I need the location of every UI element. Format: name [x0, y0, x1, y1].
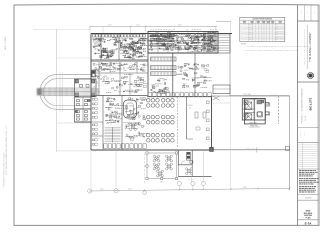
svg-text:LIGHTING FIXTURE SCHEDULE: LIGHTING FIXTURE SCHEDULE [252, 19, 272, 21]
serving south scatter [164, 83, 165, 85]
detached equipment marks [244, 101, 248, 105]
svg-text:REV: REV [314, 11, 316, 14]
revision table rows [298, 144, 320, 146]
detached building inner walls [242, 108, 254, 110]
lower-left rooms walls [102, 96, 104, 151]
kitchen equipment dense texture [178, 42, 180, 43]
serving misc line [195, 77, 212, 79]
walkway hatch into building [92, 87, 100, 89]
svg-text:EX. PVMT: EX. PVMT [271, 94, 277, 96]
dashed utility line [278, 96, 280, 124]
dim tick [130, 26, 132, 28]
restroom dark marks [88, 100, 91, 102]
dim tick [89, 190, 91, 192]
serving counters hatched [151, 57, 177, 61]
dark utility cluster [92, 70, 96, 77]
column grid line A (left) [56, 29, 58, 152]
kitchen block bottom wall [148, 52, 218, 54]
svg-text:58'-4": 58'-4" [178, 24, 182, 26]
restroom fixture [77, 118, 80, 120]
svg-text:12'-0": 12'-0" [136, 24, 140, 26]
drive-thru inner kerb [43, 79, 91, 106]
bottom extension lines [90, 150, 92, 189]
building top wall [91, 33, 232, 35]
bump-out door arc [181, 161, 185, 165]
restroom fixture [77, 111, 80, 113]
south bump-out outline [178, 150, 192, 165]
restroom fixture [77, 115, 80, 117]
svg-text:10-14-03: 10-14-03 [305, 116, 307, 121]
wall junction dark blob [210, 147, 214, 151]
toilet fixtures west wall [92, 99, 94, 101]
dim tick [257, 188, 259, 190]
sidewalk edge line 2 [61, 72, 63, 112]
grid bubble B [114, 189, 118, 193]
stair treads [105, 127, 121, 129]
grid bubble A [88, 189, 92, 193]
site marker box [285, 146, 289, 150]
wait station flower [131, 125, 134, 128]
kitchen equipment hatched counter rows [150, 34, 174, 37]
top dim extension lines [130, 27, 132, 34]
water heater rect [190, 161, 193, 163]
patio table [167, 165, 170, 168]
svg-text:PROJ NO 03-117: PROJ NO 03-117 [301, 113, 303, 123]
vestibule inner hatch [75, 88, 77, 95]
grid bubble D [177, 181, 181, 185]
top-right dim extension [230, 21, 232, 33]
mid rooms texture lower band [137, 85, 140, 86]
dim tick [145, 26, 147, 28]
project name BIG LOTS vertical [309, 97, 313, 110]
stair rail [112, 128, 114, 143]
northeast room [213, 85, 230, 94]
faint site line upper-left [33, 29, 91, 31]
building left wall [90, 34, 92, 151]
lower-left scatter [109, 103, 110, 105]
dim tick [115, 190, 117, 192]
schedule row lines [240, 25, 285, 27]
grid bubble F [201, 181, 205, 185]
dim tick [203, 189, 205, 191]
svg-text:10/14/03: 10/14/03 [305, 198, 312, 200]
svg-text:28'-4": 28'-4" [128, 189, 132, 191]
building step wall at y96 [212, 95, 231, 97]
date cell divider [298, 199, 320, 201]
equipment tag row above wall [150, 29, 152, 31]
dim tick [179, 189, 181, 191]
notes block divider [298, 194, 320, 196]
cooler shelving right strip [218, 34, 230, 54]
revision table divider [298, 142, 320, 144]
booth row along south wall [104, 144, 107, 149]
svg-text:PROPERTY LINE: PROPERTY LINE [245, 148, 255, 150]
svg-text:BIG LOTS: BIG LOTS [309, 97, 313, 110]
grid bubble C (below line) [143, 191, 147, 195]
dim tick [89, 26, 91, 28]
dining east wall tables [207, 101, 210, 104]
serving area equipment cluster [185, 73, 187, 75]
patio table east [187, 170, 190, 173]
restroom fixture [85, 111, 88, 113]
drawn/checked cell [300, 132, 302, 136]
dim tick [230, 188, 232, 190]
sidewalk edge line 1 [59, 72, 61, 112]
covered walkway hatched bar [42, 88, 75, 96]
svg-text:1891 GEMSTONE RD. COLUMBUS OH: 1891 GEMSTONE RD. COLUMBUS OH [301, 88, 303, 111]
schedule header row [240, 23, 285, 25]
mid rooms texture upper band [93, 63, 95, 65]
general notes dense text block [299, 170, 301, 172]
corridor dashed centerline [110, 97, 112, 127]
vestibule center mark [80, 85, 83, 88]
restroom fixture [77, 104, 80, 106]
vestibule column 2 [92, 80, 95, 83]
site east line [289, 96, 291, 191]
svg-text:26'-0": 26'-0" [100, 189, 104, 191]
firm block: THE RUSSELL COMPANY vertical text [309, 32, 312, 62]
schedule header text dashes [243, 20, 247, 22]
mid rooms walls [91, 59, 148, 61]
dim tick [192, 189, 194, 191]
detached equipment X-box lower [245, 114, 252, 120]
top dimension line [90, 26, 216, 28]
serving area west wall [172, 53, 174, 97]
building right wall lower [211, 96, 213, 150]
detached bldg door stub [265, 103, 270, 106]
dim extension bottom-left [57, 150, 91, 152]
project address vertical [301, 88, 303, 111]
faint line left wing bottom [57, 122, 91, 124]
svg-text:42'-8": 42'-8" [108, 24, 112, 26]
left wing outline [75, 97, 92, 122]
bar surroundings scatter [134, 108, 135, 111]
svg-text:PLAN: PLAN [306, 216, 312, 219]
detached building inner walls [244, 112, 254, 114]
plot stamp text, left margin upper [5, 36, 7, 50]
top cell vertical divider 1 [304, 5, 306, 22]
door swing arcs kitchen [107, 51, 114, 58]
plot stamp text, left margin lower [3, 153, 6, 188]
patio table [155, 157, 158, 160]
dim tick [144, 189, 146, 191]
svg-text:28'-6": 28'-6" [160, 181, 164, 183]
svg-text:86'-6": 86'-6" [243, 187, 247, 189]
svg-text:DR. BY: DR. BY [300, 132, 302, 136]
sheet number divider [298, 219, 320, 221]
dining partition wall [186, 97, 188, 139]
kitchen block internal rows [148, 35, 218, 37]
bar counter pill [124, 100, 137, 118]
site wall line y150 [212, 149, 290, 151]
gate X symbol on site line [213, 96, 220, 100]
vestibule inner walkway lines [75, 87, 97, 89]
vestibule column 1 [75, 80, 78, 83]
electrical panel stack [187, 152, 191, 154]
revision table column line [301, 143, 303, 169]
drive-thru outer kerb (stadium) [40, 74, 91, 109]
detached equipment X-box upper [245, 102, 252, 110]
left wing bottom wall [75, 121, 92, 123]
schedule column lines [248, 20, 250, 41]
firm logo [308, 73, 314, 79]
kitchen equipment block walls [148, 32, 218, 54]
detached bldg door stub upper [265, 102, 268, 105]
restroom fixture [85, 115, 88, 117]
svg-text:THE RUSSELL COMPANY: THE RUSSELL COMPANY [309, 32, 312, 62]
dim tick [289, 188, 291, 190]
patio outline [147, 153, 177, 179]
bottom dimension line [90, 188, 290, 191]
building right wall upper [229, 34, 231, 97]
patio table [167, 157, 170, 160]
dashed utility line [278, 96, 280, 124]
svg-text:NOTES:: NOTES: [241, 43, 246, 45]
svg-text:ELEC-10.DWG: ELEC-10.DWG [5, 36, 7, 50]
lighting fixture schedule table box [240, 17, 285, 41]
soffit line NE [213, 102, 230, 104]
site wall line y96 [230, 95, 290, 97]
revision block divider [298, 168, 320, 170]
dining booth row top [148, 93, 152, 97]
vestibule column 3 [75, 93, 78, 96]
kitchen west rooms walls [91, 59, 148, 61]
svg-text:P:\2003\BIGLOTS\ELEC E7A LTG 1: P:\2003\BIGLOTS\ELEC E7A LTG 10/14/03 [3, 153, 6, 188]
dim tick [215, 26, 217, 28]
project block divider [298, 127, 320, 129]
cooler vertical hatch right [203, 32, 205, 52]
dining wall under booths [147, 96, 212, 98]
walkway centerline [42, 91, 92, 93]
title block left edge [297, 5, 299, 226]
detached bldg door stub lower [265, 112, 268, 115]
svg-text:PLOT: 10/14/03 10:22 AM USER:: PLOT: 10/14/03 10:22 AM USER: JDOE SCALE… [5, 124, 8, 174]
dark cluster nw [102, 50, 107, 56]
title block top cells divider [298, 20, 320, 22]
serving area east wall [194, 53, 196, 97]
restroom fixture [85, 100, 88, 102]
faint line mid-left [57, 57, 91, 59]
left wing divider [75, 108, 92, 110]
patio table [158, 172, 161, 175]
dining misc marks [195, 112, 198, 118]
vestibule column 4 [92, 93, 95, 96]
detached dark panel [260, 100, 264, 103]
restroom fixture [85, 118, 88, 120]
svg-text:DINING: DINING [188, 105, 193, 107]
entry ramp hatch [93, 38, 96, 47]
building bottom wall [91, 149, 212, 151]
detached building outline [242, 99, 265, 121]
bump-out lower region walls [191, 165, 193, 177]
detached square fixture [257, 112, 262, 117]
firm address vertical text [303, 29, 306, 64]
restroom fixture [77, 100, 80, 102]
restroom fixture [85, 104, 88, 106]
dining table circles [147, 99, 151, 103]
dining rail dashed [177, 97, 179, 147]
detached building outline [244, 99, 265, 124]
vestibule outline [75, 79, 97, 97]
patio corner posts [146, 152, 148, 154]
top cell vertical divider 2 [310, 5, 312, 22]
patio table [155, 165, 158, 168]
svg-text:ISSUE: ISSUE [300, 11, 302, 15]
top cell tiny text [300, 11, 302, 15]
kitchen west equipment texture [140, 55, 142, 58]
firm block divider [298, 81, 320, 83]
project number vertical [301, 113, 303, 123]
svg-text:E-7A: E-7A [305, 221, 313, 225]
svg-text:104: 104 [189, 107, 191, 109]
svg-text:CK. BY: CK. BY [304, 132, 306, 136]
equipment row along top wall [93, 34, 96, 37]
title block inner right line [317, 5, 319, 226]
grid bubble E [191, 181, 195, 185]
